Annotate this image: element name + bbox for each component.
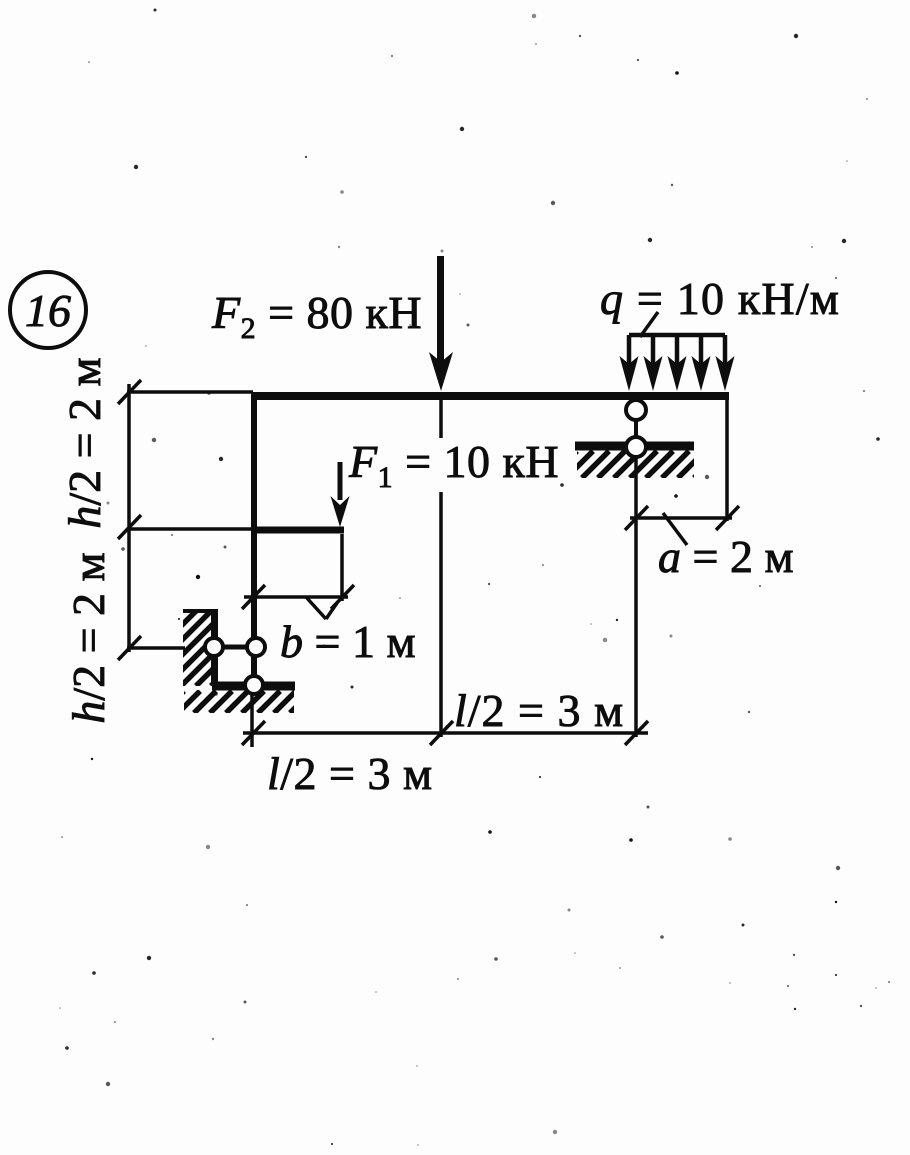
svg-text:l/2 = 3 м: l/2 = 3 м: [267, 748, 433, 799]
svg-text:q = 10 кН/м: q = 10 кН/м: [600, 273, 840, 324]
svg-text:h/2 = 2 м: h/2 = 2 м: [63, 552, 114, 723]
svg-text:h/2 = 2 м: h/2 = 2 м: [59, 357, 110, 528]
svg-text:l/2 = 3 м: l/2 = 3 м: [454, 685, 624, 736]
svg-text:b = 1 м: b = 1 м: [280, 616, 416, 667]
svg-text:a = 2 м: a = 2 м: [658, 531, 794, 582]
svg-text:16: 16: [25, 285, 71, 336]
